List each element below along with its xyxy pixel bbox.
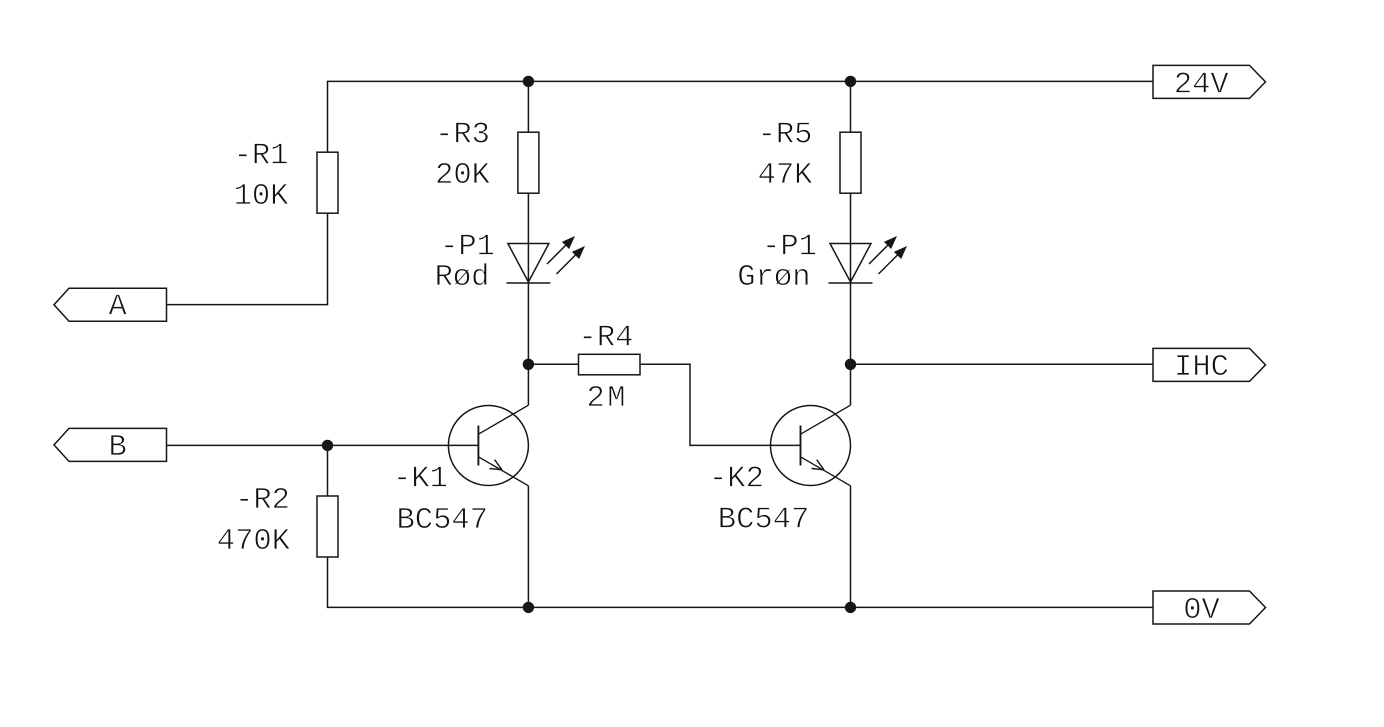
svg-text:20K: 20K (435, 159, 491, 193)
svg-text:BC547: BC547 (397, 504, 489, 538)
svg-text:-K2: -K2 (709, 462, 764, 496)
svg-text:2M: 2M (586, 382, 628, 416)
svg-text:BC547: BC547 (718, 504, 810, 538)
svg-text:-K1: -K1 (393, 463, 448, 497)
svg-text:10K: 10K (234, 180, 290, 214)
svg-text:IHC: IHC (1174, 351, 1229, 385)
svg-text:0V: 0V (1183, 594, 1220, 628)
svg-text:24V: 24V (1174, 68, 1230, 102)
svg-text:-R1: -R1 (234, 140, 289, 174)
svg-text:470K: 470K (217, 525, 291, 559)
svg-text:B: B (109, 431, 127, 465)
svg-text:-R4: -R4 (579, 322, 634, 356)
svg-text:-P1: -P1 (762, 231, 817, 265)
svg-text:-R5: -R5 (758, 119, 813, 153)
svg-text:-R3: -R3 (435, 119, 490, 153)
svg-text:-R2: -R2 (235, 484, 290, 518)
svg-text:A: A (109, 291, 128, 325)
svg-text:Grøn: Grøn (737, 261, 810, 295)
svg-text:Rød: Rød (435, 261, 490, 295)
svg-text:47K: 47K (758, 159, 814, 193)
svg-text:-P1: -P1 (440, 231, 495, 265)
